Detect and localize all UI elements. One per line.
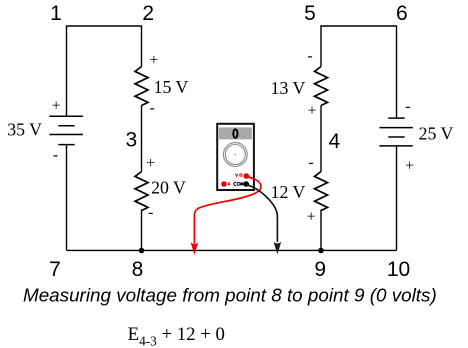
svg-text:7: 7 xyxy=(49,258,61,281)
resistor R 20V xyxy=(135,172,148,211)
wire right rail bottom xyxy=(396,146,398,251)
svg-text:10: 10 xyxy=(387,258,410,281)
svg-text:-: - xyxy=(405,98,410,115)
multimeter display xyxy=(219,127,252,139)
svg-text:-: - xyxy=(53,147,58,164)
red probe lead xyxy=(194,177,261,244)
resistor R 12V xyxy=(315,172,328,211)
svg-text:+: + xyxy=(307,208,316,225)
wire branch4 middle xyxy=(320,106,322,172)
svg-text:20 V: 20 V xyxy=(151,177,186,197)
svg-text:1: 1 xyxy=(50,2,62,25)
svg-text:12 V: 12 V xyxy=(271,182,306,202)
svg-text:+: + xyxy=(307,103,316,120)
wire bottom rail xyxy=(67,249,397,251)
battery B1 35V xyxy=(49,116,83,144)
svg-text:2: 2 xyxy=(142,2,154,25)
black probe lead xyxy=(246,185,277,243)
svg-text:-: - xyxy=(308,154,313,171)
multimeter V-ohm jack xyxy=(244,173,250,179)
multimeter COM jack xyxy=(243,181,249,187)
wire top-right loop (node5-node6) xyxy=(321,26,397,118)
multimeter dial outer ring xyxy=(223,143,247,167)
wire branch4 bottom xyxy=(320,210,322,251)
black probe arrowhead xyxy=(274,242,282,255)
wire left rail bottom xyxy=(66,145,68,251)
wire branch3 middle xyxy=(141,106,143,172)
red probe arrowhead xyxy=(191,242,199,255)
svg-text:+: + xyxy=(52,97,61,114)
svg-text:-: - xyxy=(307,47,312,64)
svg-text:8: 8 xyxy=(132,258,144,281)
multimeter M1 body xyxy=(217,124,254,190)
svg-text:+: + xyxy=(146,155,155,172)
resistor R 15V xyxy=(135,67,148,106)
svg-text:25 V: 25 V xyxy=(419,124,454,144)
svg-text:+: + xyxy=(149,52,158,69)
resistor R 13V xyxy=(315,67,328,106)
junction dot node 9 xyxy=(318,248,324,254)
svg-text:6: 6 xyxy=(396,2,408,25)
svg-text:Measuring voltage from point 8: Measuring voltage from point 8 to point … xyxy=(23,284,437,305)
svg-text:15 V: 15 V xyxy=(154,77,189,97)
multimeter display digit 0 xyxy=(233,129,237,138)
junction dot node 8 xyxy=(139,248,145,254)
wire branch3 bottom xyxy=(141,210,143,251)
svg-text:+: + xyxy=(405,158,414,175)
multimeter V-ohm label xyxy=(235,174,242,177)
svg-text:35 V: 35 V xyxy=(7,119,42,139)
svg-text:-: - xyxy=(148,204,153,221)
wire top-left loop (node1-node2) xyxy=(67,26,142,116)
multimeter dial center dot xyxy=(235,154,237,156)
multimeter COM label xyxy=(234,182,243,185)
multimeter dial inner ring xyxy=(225,145,245,165)
battery B2 25V xyxy=(379,118,413,146)
svg-text:-: - xyxy=(150,100,155,117)
svg-text:13 V: 13 V xyxy=(271,78,306,98)
svg-text:3: 3 xyxy=(125,129,137,152)
svg-text:4: 4 xyxy=(329,130,341,153)
svg-text:9: 9 xyxy=(314,258,326,281)
multimeter A label xyxy=(228,183,230,186)
svg-text:5: 5 xyxy=(304,2,316,25)
multimeter A jack xyxy=(221,181,227,187)
